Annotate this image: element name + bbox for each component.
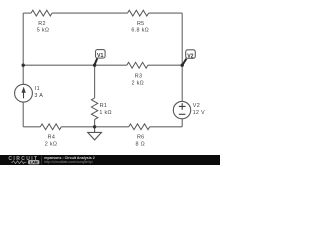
node V1 flag box [96, 50, 106, 60]
label R2 value 5 kOhm [37, 21, 49, 34]
svg-text:3 A: 3 A [34, 93, 43, 99]
junction dot left-middle [22, 63, 25, 66]
wire right vertical lower [181, 119, 183, 127]
node V2 flag box [186, 50, 196, 60]
svg-text:R2: R2 [38, 21, 46, 27]
watermark logo CIRCUIT [8, 156, 38, 162]
label V2 value 12 V [193, 103, 205, 116]
current source I1 circle [15, 84, 33, 102]
current source I1 arrow [22, 87, 26, 98]
watermark bar [0, 155, 220, 165]
wire left vertical lower [22, 102, 24, 127]
junction node V2 dot [181, 63, 184, 66]
watermark title text [44, 156, 94, 160]
wire middle vertical lower lead [94, 119, 96, 126]
svg-text:R1: R1 [100, 103, 108, 109]
svg-text:5 kΩ: 5 kΩ [37, 28, 49, 34]
wire middle horizontal left segment [23, 64, 127, 66]
watermark separator [41, 156, 43, 163]
wire right vertical upper [181, 13, 183, 101]
svg-text:V1: V1 [97, 53, 103, 59]
wire bottom-right segment [150, 126, 183, 128]
wire left vertical upper [22, 13, 24, 84]
resistor R6 [129, 124, 150, 130]
voltage source V2 circle [173, 101, 190, 118]
label R5 value 6.8 kOhm [131, 21, 149, 34]
svg-text:I1: I1 [35, 86, 40, 92]
svg-text:R4: R4 [48, 135, 56, 141]
label R3 value 2 kOhm [131, 74, 143, 87]
svg-text:2 kΩ: 2 kΩ [45, 141, 57, 147]
wire bottom-middle segment [61, 126, 128, 128]
watermark logo resistor zigzag [11, 161, 27, 164]
voltage source V2 plus sign [179, 103, 186, 110]
resistor R4 [40, 124, 61, 130]
wire middle vertical upper lead [94, 65, 96, 98]
label I1 value 3 A [34, 86, 43, 99]
svg-text:6.8 kΩ: 6.8 kΩ [131, 28, 149, 34]
resistor R5 [128, 10, 149, 16]
wire top-middle segment [52, 12, 128, 14]
label R6 value 8 Ohm [135, 135, 144, 148]
resistor R3 [127, 62, 148, 68]
resistor R1 [91, 98, 97, 119]
wire top-right segment [149, 12, 183, 14]
ground [88, 127, 102, 140]
voltage source V2 minus sign [179, 113, 186, 115]
resistor R2 [31, 10, 52, 16]
svg-text:1 kΩ: 1 kΩ [99, 110, 111, 116]
svg-text:2 kΩ: 2 kΩ [131, 81, 143, 87]
junction node V1 dot [93, 63, 96, 66]
svg-text:R3: R3 [135, 74, 143, 80]
svg-text:V2: V2 [193, 103, 200, 109]
watermark logo LAB badge [28, 160, 39, 165]
node V1 flag leader [95, 58, 98, 65]
label R4 value 2 kOhm [45, 135, 57, 148]
svg-text:V2: V2 [187, 53, 193, 59]
svg-text:R5: R5 [137, 21, 145, 27]
svg-text:12 V: 12 V [193, 110, 205, 116]
watermark url text [44, 160, 93, 164]
svg-text:R6: R6 [137, 135, 145, 141]
svg-text:LAB: LAB [30, 160, 38, 165]
svg-text:http://circuitlab.com/csnq5e4p: http://circuitlab.com/csnq5e4p/ [44, 160, 93, 164]
wire bottom-left segment [23, 126, 40, 128]
node V2 flag leader [182, 59, 186, 65]
label R1 value 1 kOhm [99, 103, 111, 116]
junction dot bottom-middle [93, 125, 96, 128]
svg-text:8 Ω: 8 Ω [135, 141, 144, 147]
wire top-left segment [23, 12, 31, 14]
wire middle horizontal right segment [148, 64, 182, 66]
